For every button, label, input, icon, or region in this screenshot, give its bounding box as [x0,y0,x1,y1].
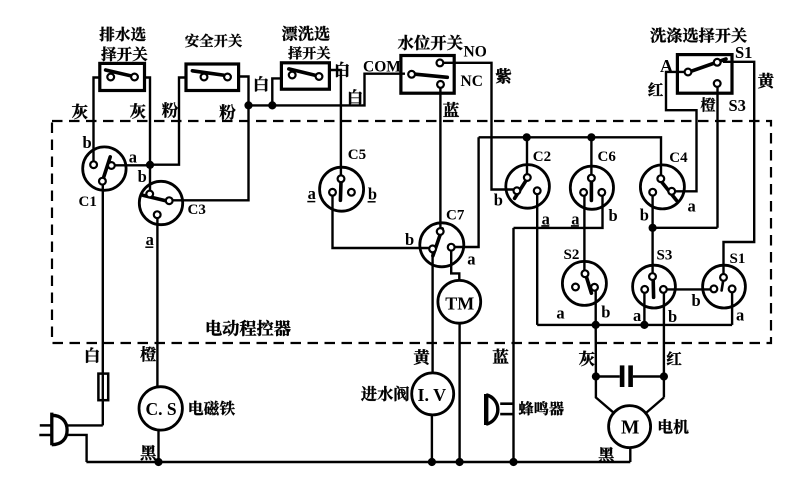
junction gray node dot [592,321,600,329]
cam S2 lever [586,276,591,293]
switch 水位开关 lever [414,74,447,77]
label 灰 right [130,103,146,118]
wire C4 b node to selector S3 riser [653,227,718,229]
switch 漂洗选择开关 body [281,63,329,89]
svg-text:I. V: I. V [418,385,447,405]
svg-text:b: b [368,185,377,204]
wire plug top to fuse [65,424,103,426]
svg-text:M: M [621,418,639,439]
wire rinse-right down to C5 top [329,70,341,175]
wire CS bottom to black bus [157,430,159,462]
cam C6 terminal top [588,175,595,182]
wire S3 a down to bus [643,293,645,325]
label 红 top [648,82,663,96]
svg-text:NO: NO [464,44,487,61]
wire safety-right down to node B [239,77,249,106]
label 黑 motor [599,447,614,462]
plug prong upper [40,424,51,427]
junction node A dot [146,161,154,169]
wire NC down to C7 top 蓝 [439,88,441,228]
label 蓝 below NC [443,102,459,117]
wire plug bottom to black bus [66,435,87,462]
cam C6 terminal a [580,189,587,196]
wire C3 right up to node B [173,105,249,200]
junction bus TM dot [456,458,464,466]
cam C1 terminal mid [108,162,115,169]
wire capacitor left [596,375,620,377]
capacitor plate left [620,365,625,387]
switch 漂洗选择开关 terminal right [316,73,323,80]
inlet valve I.V circle [412,373,454,415]
svg-text:COM: COM [363,59,401,76]
timer motor TM circle [438,280,481,323]
cam C2 terminal top [524,174,531,181]
switch 洗涤选择开关 terminal S3 [714,80,721,87]
wire NO to C2 b 紫 [444,63,513,190]
cam contact S2 circle [562,261,606,305]
junction C4 b node [649,224,657,232]
svg-text:C5: C5 [348,147,366,163]
wire C6 b down left to buzzer riser [514,196,603,228]
underline C3 a [145,246,153,248]
cam contact C7 circle [420,223,464,267]
cam C1 terminal bottom [99,178,106,185]
cam S2 terminal a [572,284,579,291]
buzzer bar [484,394,488,425]
wire IV bottom to black bus [431,415,433,462]
cam C3 terminal b [146,191,153,198]
cam C6 terminal b [598,189,605,196]
label 黄 bottom [414,349,430,365]
switch 水位开关 terminal NC [437,81,444,88]
junction bus buzzer dot [509,458,517,466]
label 紫 [496,68,511,84]
wire C1 a to node A [115,164,150,166]
switch 安全开关 terminal left [201,74,208,81]
label 粉 right [219,104,235,120]
wire buzzer riser 蓝 [512,228,514,462]
wire C1 bottom 白 down to fuse [102,185,104,426]
switch 安全开关 terminal right [224,74,231,81]
cam C3 lever [143,195,168,201]
label 洗涤选择开关 [650,28,666,43]
label 进水阀 [361,386,377,401]
cam C5 terminal top [338,175,345,182]
cam C7 terminal b [429,246,436,253]
cam S3 terminal a [641,286,648,293]
buzzer lead bottom [500,413,513,416]
cam C6 lever [590,181,594,200]
cam C4 lever [660,180,676,200]
cam C2 lever [515,177,529,199]
switch 安全开关 lever [192,71,228,76]
wire bus drop to C2 [526,137,528,174]
wire capacitor right [633,375,664,377]
label 白 on safety-right wire [255,76,268,91]
wire S1 a down to bus end [731,292,733,325]
switch 排水选择开关 terminal left [107,74,114,81]
svg-text:a: a [146,230,154,249]
label 灰 left [72,104,88,119]
wire S3 b right to S1 b [667,288,711,290]
junction bus IV dot [428,458,436,466]
svg-text:a: a [129,147,137,166]
cam C5 terminal b [348,189,355,196]
label 电磁铁 [189,401,203,415]
svg-text:C4: C4 [669,150,688,166]
cam C7 lever [433,229,442,256]
svg-text:C2: C2 [533,149,551,165]
wire C3 bottom 橙 to CS [156,218,158,387]
switch 水位开关 terminal COM [408,71,415,78]
svg-text:a: a [633,306,641,325]
label 择开关 line2 [101,47,116,62]
label 水位开关 [398,35,414,50]
cam contact C4 circle [640,165,684,209]
underline C5 b [368,201,376,203]
wire gray node down 灰 to motor [596,325,614,413]
svg-text:b: b [405,230,414,249]
svg-text:a: a [467,250,475,269]
wire C6 a down to S2 top [583,196,585,270]
svg-text:b: b [83,133,92,152]
wire motor right diagonal [646,398,664,414]
cam C5 lever [339,182,343,200]
junction bus CS dot [154,458,162,466]
cam C2 terminal b [514,187,521,194]
underline C5 a [307,201,315,203]
svg-text:b: b [494,190,503,209]
label 粉 left [162,102,178,118]
program controller dashed box [52,121,771,343]
cam S1 lever [722,281,724,291]
svg-text:b: b [138,167,147,186]
junction capacitor left dot [592,372,600,380]
buzzer lead top [500,402,513,405]
svg-text:C6: C6 [598,149,617,165]
svg-text:S3: S3 [657,248,673,264]
cam S2 terminal top [582,270,589,277]
junction node B dot2 [268,101,276,109]
label 蜂鸣器 [519,401,534,415]
cam contact C5 circle [320,167,364,211]
label 灰 bottom [579,351,595,366]
underline C2 a [541,225,549,227]
switch 排水选择开关 body [100,63,145,90]
svg-text:C1: C1 [79,194,97,210]
svg-text:S1: S1 [730,251,746,267]
cam C2 terminal a [534,187,541,194]
cam C1 lever [102,157,110,181]
wire motor bottom to black bus [629,448,631,462]
wire lower cam bus [537,324,732,326]
motor M circle [609,406,651,448]
junction cam bus to C2 [523,133,531,141]
switch 排水选择开关 terminal right [131,74,138,81]
cam C5 terminal a [329,189,336,196]
svg-text:NC: NC [461,73,483,90]
solenoid C.S circle [139,387,182,430]
wire S1 to prog S1 top 黄 [723,62,754,274]
cam contact S3 circle [633,265,676,308]
cam C4 terminal a [668,188,675,195]
svg-text:C7: C7 [446,208,465,224]
cam C4 terminal b [649,189,656,196]
switch 水位开关 terminal NO [437,60,444,67]
wire safety-left down to node A [151,78,186,165]
cam C3 terminal right [166,197,173,204]
cam S3 lever [651,280,655,297]
cam S1 terminal b [711,286,718,293]
switch 洗涤选择开关 terminal A [685,69,692,76]
wire C7 a right up to cam bus [455,137,479,247]
switch 洗涤选择开关 body [677,55,732,94]
wire C7 b down 黄 to IV [431,252,433,373]
plug body [52,413,67,446]
wire C5 a down right to C7 b [333,196,430,248]
cam S1 terminal a [729,286,736,293]
wire S3 b down 红 to capacitor [663,293,665,377]
plug prong lower [39,434,51,437]
svg-text:b: b [692,291,701,310]
switch 排水选择开关 lever [106,70,135,77]
svg-text:C3: C3 [188,202,206,218]
svg-text:b: b [609,206,618,225]
cam C1 terminal b [90,161,97,168]
switch 洗涤选择开关 terminal S1 [714,59,721,66]
svg-text:S2: S2 [564,247,580,263]
label 蓝 buzzer [493,349,509,364]
cam C3 terminal bottom [154,211,161,218]
wire C2 a down to gray node [536,194,538,325]
svg-text:TM: TM [445,293,474,313]
label 白 bottom [86,347,99,362]
label 安全开关 [185,34,199,48]
junction S3 a dot [640,321,648,329]
wire node B bus 白 [249,74,406,106]
switch 水位开关 body [401,56,454,94]
buzzer dome [486,395,498,424]
junction cam bus to C6 [587,133,595,141]
cam S1 terminal top [720,274,727,281]
label 白 left of COM riser [349,89,362,104]
label 漂洗选 line1 [282,26,297,41]
svg-text:S1: S1 [735,43,752,62]
label 橙 top [701,97,716,112]
wire C4 b down to prog S3 [651,196,653,274]
label 排水选 line1 [100,27,115,42]
svg-text:S3: S3 [729,96,746,115]
switch 漂洗选择开关 lever [289,69,319,76]
label 白 right of rinse box [336,62,349,77]
cam C7 terminal top [437,228,444,235]
wire bus drop to C6 [590,137,592,175]
cam contact S1 circle [703,265,746,308]
wire black bottom bus [86,461,630,463]
cam contact C2 circle [506,165,550,209]
capacitor plate right [628,365,633,387]
junction capacitor right dot [660,372,668,380]
label 电动程控器 [207,320,222,336]
wire drain-right down to junction/C3 b [145,78,151,191]
switch 洗涤选择开关 lever [690,59,727,72]
cam contact C6 circle [570,166,613,209]
svg-text:b: b [668,307,677,326]
svg-text:a: a [688,197,696,216]
switch 安全开关 body [186,64,239,91]
label 择开关 line2 [288,46,302,59]
svg-text:C. S: C. S [146,399,177,419]
svg-text:b: b [601,303,610,322]
wire S3b红 lower segment [663,377,665,398]
cam S3 terminal b [660,286,667,293]
label 黄 top [758,73,774,89]
underline C6 a [571,225,579,227]
switch 漂洗选择开关 terminal left [289,72,296,79]
wire rinse-left down to node B [272,78,281,105]
wire cam bus C2 C6 C4 [479,137,661,175]
wire TM bottom to black bus [458,323,460,462]
label 红 bottom [667,351,682,365]
wire selector S3 down 橙 [716,87,718,228]
cam contact C3 circle [139,181,182,224]
svg-text:b: b [640,206,649,225]
wire S2 b down to gray node [595,291,597,325]
label 黑 left [141,445,156,460]
svg-text:a: a [556,303,564,322]
label 电机 [659,419,673,433]
cam C7 terminal a [448,244,455,251]
cam C4 terminal top [657,175,664,182]
cam S3 terminal top [649,273,656,280]
label 橙 bottom [140,346,156,362]
wire drain-left down to C1 b [94,78,100,162]
junction node B dot1 [244,101,252,109]
cam contact C1 circle [83,147,126,190]
fuse body [98,374,108,401]
wire C7 a to TM [451,251,459,281]
svg-text:a: a [308,184,316,203]
wire A to C4 a 红 [666,72,697,191]
cam S2 terminal b [591,284,598,291]
svg-text:a: a [736,306,744,325]
